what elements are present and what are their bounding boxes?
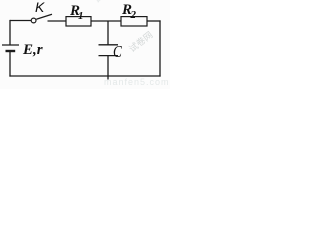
label E,r (battery) [23, 42, 43, 59]
battery E,r short thick plate [6, 50, 16, 52]
capacitor C top plate [99, 44, 119, 46]
wire left vertical upper (corner to battery) [9, 20, 11, 45]
label K (switch) [35, 0, 44, 15]
wire capacitor to bottom node [107, 56, 109, 80]
switch K circle [31, 18, 36, 23]
switch K lever [36, 14, 52, 19]
wire R2 to right corner [147, 20, 161, 22]
resistor R2 box [121, 17, 147, 26]
watermark faint diagonal [127, 28, 157, 54]
battery E,r long plate [2, 44, 19, 46]
wire switch to R1 [48, 20, 67, 22]
watermark faint diagonal top [92, 0, 120, 5]
wire R1 to R2 [91, 20, 121, 22]
label R2 [122, 2, 136, 21]
capacitor C bottom plate [99, 55, 119, 57]
label C (capacitor) [113, 42, 122, 62]
resistor R1 box [66, 17, 91, 26]
watermark bottom faint [104, 77, 170, 87]
label R1 [70, 3, 84, 22]
wire capacitor drop from node between R1 and R2 [107, 21, 109, 45]
wire top-left horizontal to switch [10, 20, 31, 22]
wire right vertical [159, 20, 161, 76]
wire left vertical lower (battery to bottom) [9, 52, 11, 77]
wire bottom [9, 75, 160, 77]
